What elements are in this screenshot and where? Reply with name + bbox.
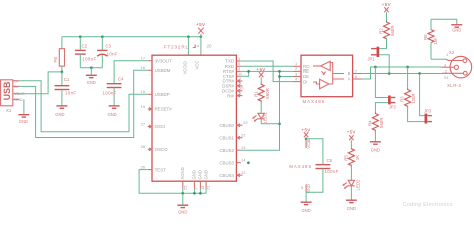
node VBUS junction [61, 71, 64, 74]
svg-text:RESET#: RESET# [155, 107, 173, 112]
svg-text:C5: C5 [327, 158, 333, 163]
ground GND (C4) [108, 106, 120, 117]
U1 right UART pins [222, 56, 244, 99]
svg-text:+5V: +5V [347, 129, 356, 134]
svg-text:10nF: 10nF [65, 90, 76, 95]
svg-text:17: 17 [141, 56, 146, 61]
svg-text:560R: 560R [390, 26, 395, 37]
svg-text:LED1: LED1 [262, 112, 267, 124]
svg-text:+5V: +5V [257, 67, 266, 72]
svg-text:23: 23 [243, 120, 248, 125]
jumper JP2 [375, 67, 396, 113]
U2 pins [293, 61, 362, 84]
ground GND (LED2) [346, 200, 357, 211]
svg-text:100nF: 100nF [103, 90, 117, 95]
node A/B junctions [374, 66, 377, 69]
resistor R6 [423, 19, 438, 59]
wire R6 to XLR pin1 [431, 58, 446, 60]
ferrite bead FB [53, 37, 64, 72]
capacitor C4 [103, 77, 125, 106]
+5V supply symbol (R5) [347, 129, 356, 147]
svg-text:CBUS2: CBUS2 [219, 148, 234, 153]
svg-text:OSCO: OSCO [155, 147, 169, 152]
svg-text:X1: X1 [6, 108, 12, 113]
jumper JP3 [408, 74, 432, 124]
svg-text:A: A [348, 77, 351, 82]
wire +5V rail [62, 36, 201, 38]
wire ground pin drops [182, 189, 184, 194]
wire R6 top to GND [431, 19, 457, 24]
svg-text:GND: GND [198, 170, 203, 179]
resistor R2 [379, 21, 396, 40]
wire VBUS [19, 72, 62, 94]
svg-text:B: B [348, 71, 351, 76]
svg-text:1M: 1M [433, 38, 438, 44]
svg-text:USB: USB [2, 82, 12, 101]
svg-text:C1: C1 [64, 77, 70, 82]
svg-text:CBUS3: CBUS3 [219, 160, 234, 165]
svg-text:JP1: JP1 [367, 57, 375, 62]
LED LED1 [253, 100, 267, 124]
svg-text:VCC: VCC [306, 140, 311, 149]
U1 left pins [141, 56, 173, 173]
LED LED2 [343, 165, 361, 200]
svg-text:VCC: VCC [195, 61, 200, 70]
wire net B [362, 73, 442, 75]
svg-text:GND: GND [203, 170, 208, 179]
wire VCC pin 20 [200, 37, 202, 56]
svg-text:JP3: JP3 [424, 108, 432, 113]
svg-text:CBUS4: CBUS4 [219, 173, 234, 178]
svg-text:JP2: JP2 [389, 105, 397, 110]
wire DE enable net vertical [241, 71, 280, 150]
svg-text:MAX485: MAX485 [303, 99, 326, 104]
U1 bottom ground pins [180, 167, 211, 190]
wire D- (USB to USBDM) [19, 70, 147, 137]
wire D+ (USB to USBDP) [19, 81, 147, 132]
wire CTS# loopback [241, 71, 249, 76]
svg-text:16: 16 [141, 65, 146, 70]
capacitor C5 [306, 139, 339, 193]
ground GND (top right) [451, 25, 462, 33]
svg-text:R4: R4 [368, 120, 373, 126]
wire TEST/ground bus [139, 170, 206, 194]
ground GND (USB) [18, 99, 29, 124]
svg-text:AGND: AGND [180, 167, 185, 179]
svg-text:3V3OUT: 3V3OUT [155, 58, 172, 63]
node RTS/CTS junction [247, 70, 250, 73]
svg-text:S1: S1 [444, 75, 450, 80]
svg-text:GND: GND [347, 206, 356, 211]
svg-text:12: 12 [241, 170, 246, 175]
svg-text:D+: D+ [14, 79, 20, 83]
resistor R3 [400, 67, 417, 107]
wire LED1 to enable net [261, 123, 279, 125]
svg-text:USBDM: USBDM [155, 68, 171, 73]
svg-text:LED2: LED2 [356, 179, 361, 191]
svg-text:R3: R3 [400, 96, 405, 102]
svg-text:15: 15 [141, 89, 146, 94]
svg-text:+5V: +5V [302, 127, 311, 132]
svg-text:GND: GND [19, 119, 28, 124]
svg-text:28: 28 [141, 144, 146, 149]
svg-text:560R: 560R [265, 88, 270, 99]
ground GND (U1) [177, 193, 188, 214]
node C2/C3 gnd tee [90, 66, 93, 69]
connector X2 XLR-3 [442, 50, 472, 88]
resistor R4 [368, 113, 385, 142]
svg-text:19: 19 [141, 104, 146, 109]
resistor R5 [344, 148, 361, 167]
wire TXD to DI [241, 61, 293, 82]
svg-text:Coding Electronics: Coding Electronics [403, 202, 453, 208]
svg-text:GND: GND [371, 148, 380, 153]
svg-text:100nF: 100nF [325, 169, 339, 174]
ground GND (C2/C3) [86, 68, 97, 86]
ground GND (U2) [301, 192, 312, 213]
U1 CBUS pins [219, 120, 248, 178]
node DE junctions [278, 70, 281, 73]
resistor R1 [253, 83, 270, 102]
svg-text:RI#: RI# [227, 93, 234, 98]
op-amp U1 FT232RL body [152, 45, 236, 182]
node CBUS3 dot [247, 161, 250, 164]
wire DE stub [280, 76, 293, 78]
ground GND (R4) [370, 142, 381, 153]
+5V supply symbol (R2) [382, 2, 391, 21]
wire RTS# to RE [241, 70, 293, 72]
svg-text:FB: FB [53, 57, 58, 63]
USB connector X1 [1, 79, 25, 113]
capacitor C1 [55, 72, 77, 106]
wire VCCIO pin 4 [187, 37, 189, 56]
svg-text:C2: C2 [82, 43, 88, 48]
jumper JP1 [367, 38, 389, 74]
svg-text:14: 14 [241, 158, 246, 163]
svg-text:100nF: 100nF [82, 56, 96, 61]
svg-text:C3: C3 [105, 44, 111, 49]
svg-text:22: 22 [241, 133, 246, 138]
svg-text:GND: GND [87, 80, 96, 85]
svg-text:26: 26 [141, 164, 146, 169]
ground GND (C1) [55, 106, 67, 117]
svg-text:27: 27 [141, 121, 146, 126]
svg-text:XLR-3: XLR-3 [447, 83, 461, 88]
svg-text:20: 20 [207, 44, 212, 49]
wire C2/C3 ground node [80, 67, 102, 69]
wire RXD to RO [241, 65, 293, 67]
op-amp U2 MAX485 body [301, 55, 353, 104]
svg-text:GND: GND [302, 208, 311, 213]
svg-text:CBUS0: CBUS0 [219, 123, 234, 128]
svg-text:VCCIO: VCCIO [182, 60, 187, 74]
svg-text:GND: GND [108, 112, 117, 117]
svg-text:FT232RL: FT232RL [164, 45, 189, 50]
svg-text:GND: GND [192, 170, 197, 179]
svg-text:+5V: +5V [196, 22, 206, 27]
svg-text:GND: GND [14, 98, 23, 102]
svg-text:TEST: TEST [155, 167, 167, 172]
svg-text:R2: R2 [379, 28, 384, 34]
+5V supply symbol (R1) [257, 67, 266, 83]
svg-text:CBUS1: CBUS1 [219, 135, 234, 140]
node ground bus junctions [181, 192, 184, 195]
svg-text:OSCI: OSCI [155, 124, 166, 129]
svg-text:X2: X2 [449, 50, 455, 55]
svg-text:120R: 120R [411, 94, 416, 105]
svg-text:MAX485: MAX485 [289, 164, 312, 169]
capacitor C3 [97, 37, 118, 68]
svg-text:GND: GND [178, 210, 187, 215]
svg-text:USBDP: USBDP [155, 92, 170, 97]
svg-text:R1: R1 [253, 91, 258, 97]
svg-text:+5V: +5V [382, 2, 391, 7]
svg-text:13: 13 [241, 145, 246, 150]
svg-text:R6: R6 [423, 34, 428, 40]
svg-text:DI: DI [303, 79, 307, 84]
svg-text:560R: 560R [379, 118, 384, 129]
svg-text:TXD: TXD [225, 59, 234, 64]
capacitor C2 [75, 37, 97, 68]
svg-text:10nF: 10nF [107, 52, 118, 57]
svg-text:R5: R5 [344, 155, 349, 161]
svg-text:GND: GND [55, 112, 64, 117]
node rail junctions [79, 35, 82, 38]
+5V supply symbol (rail) [196, 22, 206, 37]
svg-text:1K: 1K [355, 155, 360, 160]
svg-text:C4: C4 [118, 77, 124, 82]
wire net A [362, 67, 442, 79]
U2 power gate +5V [289, 127, 312, 193]
svg-text:GND: GND [452, 28, 461, 33]
wire 3V3OUT to C4 [114, 61, 148, 83]
